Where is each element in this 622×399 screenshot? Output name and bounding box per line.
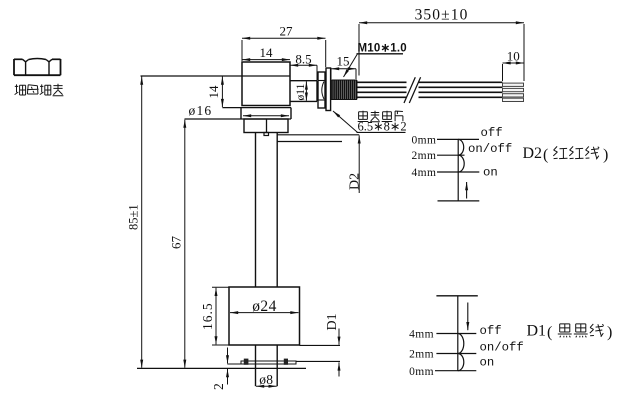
svg-text:ø8: ø8 xyxy=(259,372,273,387)
D1 diagram float travel arcs xyxy=(458,334,464,354)
svg-text:on/off: on/off xyxy=(480,341,524,355)
float bottom extension line to D1 xyxy=(300,344,341,346)
svg-text:6.5∗8∗2: 6.5∗8∗2 xyxy=(358,120,407,134)
svg-text:D1: D1 xyxy=(325,313,340,330)
mounting flange ø16 xyxy=(222,107,291,109)
mounting face extension line A xyxy=(277,134,359,136)
stem tube right edge lower xyxy=(276,345,278,386)
stem tube right edge upper xyxy=(276,133,278,288)
D2 diagram bottom line xyxy=(438,200,480,202)
dimension ø24 arrows xyxy=(230,312,299,314)
svg-text:2: 2 xyxy=(211,383,226,390)
svg-text:(: ( xyxy=(547,324,552,341)
svg-text:ø11: ø11 xyxy=(295,83,307,100)
mounting face extension line B xyxy=(277,141,342,143)
threaded section M10 xyxy=(331,79,357,81)
D2 diagram float travel arcs xyxy=(458,139,464,155)
cable wires (4 conductors) xyxy=(357,81,503,83)
dimension 27 xyxy=(242,37,326,39)
D1 diagram down arrow xyxy=(467,303,469,331)
dimension D1 upper arrow xyxy=(338,329,340,345)
dimension 14 vertical (head height) xyxy=(221,77,223,108)
dimension 15 (thread length) xyxy=(331,68,356,70)
svg-text:off: off xyxy=(480,324,502,338)
svg-text:350±10: 350±10 xyxy=(415,6,469,23)
head internal step line (extends left as extension line for 85 dim) xyxy=(141,75,291,77)
svg-text:14: 14 xyxy=(260,45,274,60)
svg-text:ø16: ø16 xyxy=(189,103,213,118)
svg-text:on: on xyxy=(480,356,495,370)
small tab under boss xyxy=(264,133,269,136)
svg-text:10: 10 xyxy=(507,49,520,64)
svg-text:8.5: 8.5 xyxy=(295,51,311,66)
dimension D1 lower arrow xyxy=(338,362,340,376)
svg-text:85±1: 85±1 xyxy=(126,204,140,230)
svg-text:14: 14 xyxy=(206,85,221,99)
svg-text:D1: D1 xyxy=(527,323,547,340)
bottom reference line xyxy=(137,367,306,369)
svg-text:2mm: 2mm xyxy=(409,348,434,360)
dimension 67 vertical xyxy=(184,120,186,368)
dimension 14 horizontal xyxy=(242,59,290,61)
D2 diagram up arrow xyxy=(466,182,468,199)
svg-text:M10∗1.0: M10∗1.0 xyxy=(358,43,407,55)
clip cross-section squares xyxy=(244,359,249,365)
dimension 350 +/- 10 (cable length) xyxy=(359,22,524,24)
label 螺母配送 (nut supplied) xyxy=(15,84,26,95)
hex nut on thread xyxy=(318,72,325,108)
dimension 85 +/- 1 overall xyxy=(141,77,143,368)
neck ø11 section xyxy=(290,80,317,82)
dimension line ø16 arrows inside flange xyxy=(243,115,289,117)
dimension 10 (stripped end) xyxy=(503,62,525,64)
stem tube left edge upper xyxy=(255,133,257,288)
dimension 16.5 float height xyxy=(212,286,229,288)
retaining clip bar xyxy=(241,361,296,364)
switch head upper body block xyxy=(242,62,290,106)
stem tube left edge lower xyxy=(255,345,257,386)
stripped wire ends xyxy=(503,83,524,86)
hex nut side-view symbol (supplied nut) xyxy=(14,74,61,76)
svg-text:off: off xyxy=(481,126,503,140)
svg-text:2mm: 2mm xyxy=(411,150,436,162)
svg-text:15: 15 xyxy=(337,54,350,69)
svg-text:ø24: ø24 xyxy=(252,298,276,315)
dimension 8.5 xyxy=(290,64,317,66)
svg-text:4mm: 4mm xyxy=(409,328,434,340)
svg-text:on: on xyxy=(483,166,498,180)
svg-text:D2: D2 xyxy=(523,145,543,162)
float body ø24 xyxy=(229,287,300,345)
svg-text:D2: D2 xyxy=(347,173,362,190)
D1 diagram stem vertical xyxy=(457,296,459,371)
svg-text:16.5: 16.5 xyxy=(200,302,215,330)
svg-text:0mm: 0mm xyxy=(411,134,436,146)
svg-text:67: 67 xyxy=(169,236,184,250)
boss block below flange xyxy=(244,119,288,133)
D2 diagram stem vertical xyxy=(457,139,459,201)
D2 switch diagram level lines xyxy=(437,138,479,140)
dimension ø11 vertical arrows in neck xyxy=(305,81,307,100)
cable break symbol xyxy=(407,76,419,105)
svg-text:0mm: 0mm xyxy=(409,366,434,378)
dimension D2 leader with up arrow xyxy=(358,135,360,193)
label 白色垫片 (white gasket) xyxy=(358,111,369,122)
washer xyxy=(326,68,331,111)
svg-text:(: ( xyxy=(543,147,548,164)
svg-text:): ) xyxy=(607,324,612,341)
svg-text:on/off: on/off xyxy=(468,142,512,156)
D1 switch diagram level lines xyxy=(436,333,476,335)
dimension 2 (clip clearance) xyxy=(227,348,229,364)
svg-text:27: 27 xyxy=(280,23,294,38)
D1 diagram top reference line xyxy=(436,295,477,297)
svg-text:): ) xyxy=(603,147,608,164)
svg-text:4mm: 4mm xyxy=(411,167,436,179)
